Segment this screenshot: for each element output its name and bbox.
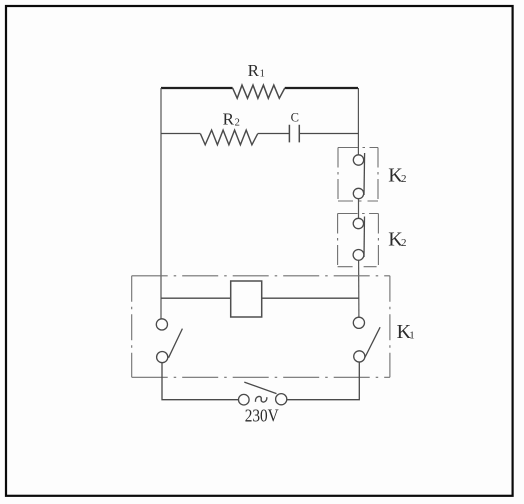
contact K2 lower box bbox=[338, 214, 379, 267]
contact K1 left bbox=[156, 319, 182, 363]
label 230V bbox=[245, 406, 279, 426]
label R1 bbox=[248, 61, 265, 80]
wire top horizontal bbox=[161, 87, 358, 89]
switch S terminals and blade bbox=[239, 382, 287, 405]
wire coil branch bbox=[161, 297, 359, 299]
label K2 upper bbox=[388, 165, 406, 187]
wire bottom right bbox=[287, 362, 360, 400]
contact K1 right bbox=[353, 317, 380, 362]
wire left vertical bbox=[160, 88, 162, 319]
svg-text:R: R bbox=[223, 110, 235, 129]
svg-text:2: 2 bbox=[235, 118, 240, 129]
label C bbox=[291, 110, 299, 124]
relay K1 boundary box bbox=[132, 276, 390, 378]
resistor R2 bbox=[200, 130, 257, 145]
svg-text:R: R bbox=[248, 61, 260, 80]
svg-text:C: C bbox=[291, 110, 299, 124]
svg-text:230V: 230V bbox=[245, 406, 279, 426]
wire bottom left bbox=[162, 363, 239, 400]
resistor R1 bbox=[233, 85, 285, 98]
contact K2 lower terminals and blade bbox=[353, 217, 364, 261]
label R2 bbox=[223, 110, 240, 129]
relay coil K1 bbox=[231, 281, 262, 317]
wire right vertical upper bbox=[357, 88, 359, 155]
wire between K2 contacts bbox=[358, 199, 360, 219]
label K1 bbox=[397, 321, 415, 343]
svg-text:1: 1 bbox=[409, 329, 415, 341]
svg-text:2: 2 bbox=[401, 173, 407, 185]
contact K2 upper box bbox=[338, 148, 378, 202]
label K2 lower bbox=[388, 229, 406, 251]
wire from K2 lower to K1 right contact bbox=[358, 260, 360, 317]
wire R2-C branch bbox=[161, 133, 358, 135]
svg-text:2: 2 bbox=[401, 237, 407, 249]
contact K2 upper terminals and blade bbox=[353, 153, 364, 199]
AC symbol S bbox=[255, 396, 266, 402]
capacitor C bbox=[289, 125, 299, 143]
svg-text:1: 1 bbox=[260, 69, 265, 80]
